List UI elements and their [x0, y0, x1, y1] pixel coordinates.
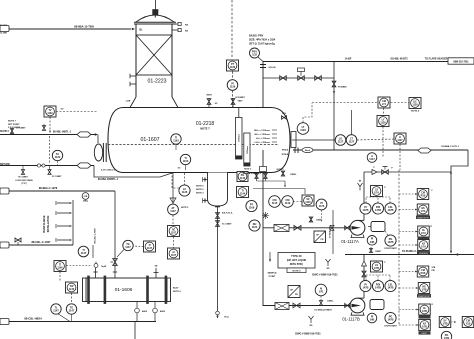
- signal TV lateral: [56, 109, 98, 112]
- svg-text:ICB: ICB: [84, 196, 88, 198]
- instrument A-1147: [367, 153, 377, 163]
- wire return line: [0, 165, 94, 167]
- wire boot drain line: [217, 206, 219, 316]
- signal PT to PI: [232, 72, 234, 80]
- signal to XL-B1: [399, 309, 419, 326]
- check valve discharge B: [362, 261, 367, 277]
- instrument square UF-PD-B: [288, 286, 300, 298]
- off-page connector feed line: [0, 26, 9, 32]
- svg-text:1/7A: 1/7A: [421, 245, 426, 248]
- signal LT up: [303, 103, 312, 123]
- svg-text:147B: 147B: [375, 209, 381, 212]
- signal LG to LI: [357, 139, 394, 140]
- svg-text:START/STOP: START/STOP: [418, 295, 430, 298]
- suction A strainer: [274, 225, 289, 232]
- svg-text:(TYP): (TYP): [22, 183, 27, 185]
- signal LC to vessel: [172, 173, 185, 188]
- svg-text:Y1B: Y1B: [466, 322, 471, 325]
- instrument PI-1136: [227, 80, 238, 91]
- line label 8BA-FW: [243, 172, 262, 175]
- signal to HS-A2: [399, 209, 417, 211]
- valve suction B: [293, 303, 300, 308]
- svg-text:01-2218: 01-2218: [196, 121, 215, 127]
- plug valve symbol: [262, 212, 269, 219]
- svg-text:14B: 14B: [370, 319, 375, 322]
- dcs square XL-A2: [417, 240, 430, 255]
- instrument PG-B: [384, 312, 397, 327]
- wire PSV riser: [262, 62, 264, 108]
- suction B label: [314, 309, 332, 312]
- svg-text:1/7B: 1/7B: [421, 288, 426, 291]
- thermowell on drain: [94, 262, 106, 269]
- svg-text:VENT: VENT: [206, 94, 212, 96]
- valve on exchanger inlet: [111, 259, 118, 266]
- instrument LT-1126: [297, 123, 309, 135]
- svg-text:Vksd: Vksd: [224, 317, 230, 319]
- interlock bubble ICB: [82, 193, 89, 203]
- blind flange header vertical: [72, 200, 74, 245]
- signal trunk vertical: [398, 170, 400, 326]
- instrument PI-A: [360, 203, 371, 214]
- svg-text:STB: STB: [432, 267, 436, 269]
- svg-text:88-8BA-C-1978: 88-8BA-C-1978: [39, 186, 58, 190]
- exchanger flange 1: [87, 276, 90, 304]
- svg-text:SET @ 10.67 kg/cm2g: SET @ 10.67 kg/cm2g: [249, 43, 275, 46]
- svg-text:SC 1/2BET: SC 1/2BET: [222, 224, 232, 226]
- instrument PI-B: [360, 280, 371, 291]
- wire return drop and bottoms line: [94, 166, 175, 182]
- svg-text:SO-8BL-IN-BT2: SO-8BL-IN-BT2: [390, 58, 408, 61]
- wire suction B: [263, 305, 350, 307]
- svg-text:WITH BTIC): WITH BTIC): [290, 263, 303, 266]
- column skirt: [126, 97, 178, 108]
- wire line 88-CBL-C-1607: [0, 240, 73, 245]
- svg-text:P1B: P1B: [421, 272, 426, 275]
- signal Y1 to Y2: [451, 321, 457, 323]
- svg-text:STOP/START: STOP/START: [384, 247, 397, 250]
- valve suction A: [294, 226, 301, 231]
- off-page connector 1607: [0, 242, 9, 248]
- off-page connector return: [0, 164, 10, 166]
- instrument LSL-B: [385, 280, 396, 291]
- reducer suction A: [330, 225, 334, 230]
- wire sample riser: [329, 210, 334, 254]
- svg-text:LOW POINT DRAIN: LOW POINT DRAIN: [15, 179, 33, 182]
- svg-text:PD: PD: [295, 294, 298, 296]
- wire vessel to LG bridle: [292, 139, 335, 141]
- svg-text:SET POINT: SET POINT: [8, 124, 20, 126]
- svg-text:147B: 147B: [363, 287, 369, 290]
- instrument TG-1147: [117, 240, 133, 257]
- svg-text:1144: 1144: [240, 192, 246, 195]
- signal row to LY squares: [312, 102, 378, 104]
- svg-text:1149: 1149: [285, 202, 291, 205]
- svg-text:147B: 147B: [388, 241, 394, 244]
- svg-text:SC 1/2BET: SC 1/2BET: [52, 176, 62, 178]
- svg-text:14-BF: 14-BF: [345, 58, 352, 61]
- svg-text:1103: 1103: [183, 160, 189, 163]
- blind flange stub 1: [57, 202, 72, 204]
- exchanger bottom nozzle 1: [135, 302, 148, 322]
- svg-text:1176: 1176: [319, 205, 325, 208]
- dcs square HS-A2: [416, 204, 430, 219]
- column left side nozzles: [130, 74, 136, 86]
- svg-text:DWG # 88W-019-7031: DWG # 88W-019-7031: [312, 274, 338, 277]
- note PRV basis: [249, 35, 276, 46]
- instrument square CM-LY: [378, 97, 390, 108]
- instrument TI on line 1607: [78, 246, 89, 257]
- instrument square TI-1147: [133, 241, 155, 252]
- svg-text:RT8LB: RT8LB: [282, 154, 289, 156]
- drain line label: [0, 0, 1, 1]
- svg-text:1146: 1146: [57, 266, 63, 269]
- sample probe to AT: [170, 173, 176, 204]
- svg-text:SIZE: 4P6-7024 x 1024: SIZE: 4P6-7024 x 1024: [249, 39, 276, 42]
- svg-text:1145: 1145: [272, 202, 278, 205]
- valve on line 1607: [15, 238, 21, 245]
- instrument LSL-A: [385, 203, 396, 214]
- svg-text:1146: 1146: [69, 288, 75, 291]
- pump 01-1117A: [345, 220, 365, 237]
- svg-text:147B: 147B: [388, 319, 394, 322]
- off-page connector 1978: [0, 188, 9, 194]
- svg-text:START/STOP: START/STOP: [417, 216, 429, 219]
- instrument LT-1127: [346, 110, 357, 145]
- signal PI down: [321, 210, 323, 222]
- drain funnel A: [326, 259, 331, 270]
- signal AI down: [319, 296, 334, 306]
- svg-text:LLL = 700mm: LLL = 700mm: [256, 138, 270, 140]
- column right nozzles: [172, 22, 188, 32]
- svg-text:1/7B: 1/7B: [374, 267, 379, 270]
- instrument PSV pilot: [250, 48, 264, 62]
- svg-text:147B: 147B: [363, 209, 369, 212]
- svg-text:NOTE 3: NOTE 3: [196, 193, 204, 195]
- svg-text:LGB: LGB: [126, 101, 131, 103]
- instrument square AW: [237, 172, 248, 182]
- column top fitting: [153, 10, 158, 18]
- signal AE to AI: [173, 237, 175, 249]
- svg-text:P1B: P1B: [421, 194, 426, 197]
- svg-text:88-CBL-C-1607: 88-CBL-C-1607: [31, 240, 51, 244]
- wire suction A: [263, 227, 350, 229]
- instrument TL-1147: [51, 304, 61, 314]
- dcs square XL-B1: [419, 304, 434, 319]
- exchanger right channel: [167, 278, 171, 302]
- svg-text:01-1117A: 01-1117A: [341, 239, 359, 244]
- wire drop from bottom line: [134, 322, 136, 339]
- main line spec hexagon: [418, 145, 460, 153]
- instrument square LS-117A: [371, 186, 387, 197]
- vessel top right fitting: [282, 113, 287, 119]
- instrument square TV-1132: [44, 106, 56, 117]
- instrument square SC-1145: [302, 195, 314, 206]
- valve discharge A: [382, 167, 389, 175]
- instrument square PT-1136: [227, 60, 239, 71]
- column 01-2223 dome: [136, 15, 174, 22]
- svg-text:TYPE 2C: TYPE 2C: [291, 254, 302, 258]
- svg-text:1145: 1145: [305, 201, 311, 204]
- svg-text:1126: 1126: [412, 103, 418, 106]
- boot drain end arrow: [216, 311, 230, 318]
- svg-text:HC 1/2BET: HC 1/2BET: [18, 177, 29, 179]
- off-page connector H85H: [0, 319, 9, 325]
- vessel label 01-2218: [196, 121, 215, 131]
- check valve discharge A: [372, 170, 377, 175]
- svg-text:NOTE 3: NOTE 3: [244, 169, 251, 171]
- instrument square TI-1144: [237, 187, 249, 198]
- svg-text:PC/MBU: PC/MBU: [338, 87, 347, 89]
- instrument TI-1103 on vessel: [178, 154, 191, 170]
- svg-text:PD: PD: [320, 239, 323, 241]
- wire discharge header A: [364, 171, 451, 173]
- instrument TA-1132: [52, 150, 62, 160]
- instrument DH-1164: [249, 220, 260, 231]
- svg-text:14B: 14B: [370, 241, 375, 244]
- svg-text:0.2% 1500mm: 0.2% 1500mm: [101, 170, 115, 172]
- svg-text:8T8LB: 8T8LB: [282, 150, 289, 152]
- seal pot B: [370, 300, 384, 310]
- svg-text:NOTE 7: NOTE 7: [200, 127, 210, 131]
- valve PC row 1: [280, 76, 287, 80]
- instrument square PDT: [314, 231, 326, 243]
- svg-text:88-8BA-12-TBH: 88-8BA-12-TBH: [74, 25, 94, 29]
- svg-text:1147: 1147: [81, 252, 87, 255]
- svg-text:1/32: 1/32: [252, 54, 257, 57]
- instrument square LI-1127: [394, 133, 406, 144]
- svg-text:88-8BA-FW/BTL-1: 88-8BA-FW/BTL-1: [243, 172, 262, 175]
- valve PC row 3: [315, 76, 322, 80]
- dcs square HS-A1: [417, 189, 433, 200]
- svg-text:ELEV: ELEV: [173, 288, 179, 290]
- instrument TG-1147: [66, 304, 76, 314]
- svg-text:12-TBH: 12-TBH: [0, 33, 8, 35]
- dwg ref A: [312, 274, 338, 277]
- signal TI square to well: [66, 265, 92, 267]
- wire PC riser: [333, 62, 335, 151]
- suction B strainer: [275, 303, 289, 310]
- svg-text:1500mm: 1500mm: [239, 134, 241, 142]
- valve on boot drain: [216, 212, 234, 227]
- svg-text:SC 1/2BET: SC 1/2BET: [16, 128, 26, 130]
- instrument TI-1102 on vessel: [171, 134, 181, 150]
- svg-text:(HP, HOT, LIQUID: (HP, HOT, LIQUID: [287, 259, 307, 262]
- leader TL to line: [58, 314, 72, 322]
- boot level tap 1: [203, 177, 208, 182]
- svg-text:88W-218-7031: 88W-218-7031: [453, 61, 469, 63]
- pump A label: [341, 239, 359, 244]
- svg-text:RETURN: RETURN: [0, 164, 10, 166]
- dcs square XA-B2: [419, 320, 431, 336]
- PSV inlet flanges: [260, 65, 276, 70]
- svg-text:RUNNING: RUNNING: [419, 253, 428, 255]
- wire supply elbow to nozzle: [97, 135, 99, 144]
- svg-text:1102: 1102: [173, 140, 179, 143]
- signal to HS-B2: [399, 287, 418, 289]
- signal TA to return: [57, 161, 59, 166]
- svg-text:SUPPLY: SUPPLY: [0, 131, 9, 133]
- wire line 88-8BA-C-1978: [0, 186, 115, 191]
- valve vent suction: [309, 217, 323, 222]
- wire vertical drop to exchanger: [114, 191, 116, 270]
- svg-text:NOTE 5: NOTE 5: [181, 207, 189, 209]
- svg-text:1/2BSL: 1/2BSL: [327, 301, 334, 303]
- exchanger flange 4: [165, 276, 168, 304]
- svg-text:BA10: BA10: [160, 310, 166, 313]
- svg-text:TO FLARE HEADER: TO FLARE HEADER: [425, 58, 448, 61]
- flare dwg tag: [448, 58, 474, 64]
- dcs square Y2: [462, 317, 474, 328]
- svg-text:1/7B: 1/7B: [422, 325, 427, 328]
- signal to HS-B1: [399, 271, 417, 273]
- vessel level marks MLL NLL LLL LLLL: [254, 130, 277, 144]
- seal pot A: [368, 222, 385, 232]
- off-page connector supply: [0, 131, 9, 133]
- svg-text:1/2BET: 1/2BET: [375, 251, 382, 253]
- boot level tap 2: [203, 198, 208, 203]
- signal seal pot A: [366, 197, 390, 203]
- signal pot to PG: [385, 231, 388, 236]
- svg-text:VBET: VBET: [237, 101, 243, 103]
- blind flange stub 4: [57, 239, 72, 241]
- vessel internal standpipe 2: [244, 133, 250, 166]
- column 01-2223 shell: [136, 24, 172, 97]
- column packing section: [136, 35, 172, 75]
- instrument AT-1107: [168, 204, 190, 215]
- type 2c note box: [278, 253, 315, 273]
- column 01-2223 top flange: [134, 22, 176, 24]
- svg-text:1/2 BSA-207BDH: 1/2 BSA-207BDH: [314, 309, 332, 312]
- svg-text:1127: 1127: [349, 141, 355, 144]
- instrument square LS-117B: [371, 261, 387, 272]
- svg-text:INSTALLATION: INSTALLATION: [47, 215, 50, 232]
- svg-text:1164: 1164: [252, 226, 258, 229]
- svg-text:BA10: BA10: [142, 310, 148, 313]
- pump B discharge: [363, 255, 365, 299]
- svg-text:NOTE 7: NOTE 7: [8, 121, 17, 123]
- exchanger 01-1606 shell: [86, 278, 167, 302]
- instrument PDI-A: [372, 203, 383, 214]
- blind flange stub 2: [57, 212, 72, 214]
- signal TW down: [71, 293, 73, 304]
- spec break hexagon supply: [77, 132, 91, 137]
- blind flange bracket text: [43, 201, 56, 242]
- wire bottom line 88-CBL-H85H: [0, 317, 156, 322]
- pressure tap A: [373, 167, 393, 170]
- svg-text:1147: 1147: [53, 310, 59, 313]
- drain funnel B: [309, 316, 314, 327]
- spec break hexagon return: [77, 163, 91, 168]
- signal AT to AE: [172, 215, 174, 226]
- svg-text:88-8BA-FW/BTL-1: 88-8BA-FW/BTL-1: [98, 178, 119, 181]
- exchanger right note: [173, 288, 181, 294]
- column label 01-2223: [147, 79, 166, 85]
- svg-text:1107: 1107: [170, 210, 176, 213]
- instrument LC-1126: [179, 185, 204, 196]
- svg-text:01-1606: 01-1606: [115, 287, 133, 293]
- vessel vent valve 2: [231, 97, 246, 108]
- svg-text:1132: 1132: [47, 112, 53, 115]
- svg-text:1107: 1107: [171, 231, 177, 234]
- svg-text:01-1607: 01-1607: [140, 137, 159, 143]
- instrument PI-147A small: [367, 236, 382, 254]
- svg-text:1107: 1107: [171, 254, 177, 257]
- vent funnel A: [358, 181, 363, 191]
- svg-text:01-2223: 01-2223: [147, 79, 166, 85]
- dwg ref B: [295, 333, 321, 336]
- vessel internal distributor pipe: [108, 144, 278, 146]
- vessel left manway flanges: [103, 143, 106, 162]
- svg-text:Wood: Wood: [305, 150, 311, 152]
- svg-text:NOTE 4: NOTE 4: [293, 269, 302, 272]
- suction top fittings: [244, 167, 305, 195]
- control valve PC tag: [332, 81, 347, 88]
- signal line to PT: [231, 0, 233, 59]
- svg-text:147B: 147B: [388, 287, 394, 290]
- valve on supply line small: [10, 128, 26, 135]
- svg-text:SC/1/2BET: SC/1/2BET: [235, 97, 245, 99]
- svg-text:(TBL): (TBL): [83, 201, 89, 203]
- instrument square AI-1107: [168, 248, 180, 259]
- svg-text:FAULT: FAULT: [422, 332, 429, 335]
- svg-text:SC6-06: SC6-06: [269, 67, 277, 69]
- svg-text:NOTE 4: NOTE 4: [411, 110, 420, 113]
- signal LY to LIC: [391, 102, 410, 104]
- signal LI down: [399, 144, 401, 170]
- vessel label 01-1607: [140, 137, 159, 143]
- wire PC bypass row: [263, 77, 334, 79]
- vessel left manway cap: [94, 144, 102, 161]
- boot outlet flange: [215, 206, 220, 208]
- svg-text:NLL = 1100mm: NLL = 1100mm: [255, 134, 270, 136]
- exchanger left head: [83, 278, 87, 302]
- svg-text:STOP/START: STOP/START: [384, 325, 397, 328]
- valve PC row 2 with actuator: [298, 68, 305, 80]
- exchanger flange 2: [104, 276, 107, 304]
- main line tag oval: [302, 147, 313, 152]
- wire main line drop right: [450, 150, 468, 254]
- svg-text:147B: 147B: [375, 287, 381, 290]
- dcs square HS-B2: [417, 283, 431, 298]
- instrument PT-1169: [246, 200, 257, 211]
- dcs square XL-A1: [418, 226, 433, 241]
- svg-text:SO: SO: [61, 109, 64, 111]
- pump 01-1117B: [345, 298, 365, 315]
- wire main bottoms line: [293, 149, 468, 151]
- instrument PDI-B: [372, 280, 383, 291]
- svg-text:1132: 1132: [55, 156, 61, 159]
- signal to XL-A1: [399, 231, 418, 246]
- dcs square HS-B1: [417, 266, 436, 277]
- svg-text:88-CBL-C-TBH: 88-CBL-C-TBH: [95, 228, 97, 244]
- column inlet nozzle BL: [139, 29, 143, 32]
- instrument PG-A: [384, 235, 397, 250]
- svg-text:1200mm: 1200mm: [247, 146, 249, 154]
- pump A discharge: [363, 172, 365, 220]
- signal to HS-A1: [399, 193, 417, 195]
- svg-text:1/7A: 1/7A: [374, 191, 379, 194]
- svg-text:1169: 1169: [249, 207, 255, 210]
- svg-text:SC6: SC6: [282, 113, 286, 115]
- wire flare header: [263, 58, 448, 62]
- svg-text:1126: 1126: [380, 121, 386, 124]
- instrument CM-1149: [282, 196, 294, 208]
- instrument PI-147B small: [367, 313, 377, 323]
- wire steam supply line: [0, 131, 98, 136]
- svg-text:1/7B: 1/7B: [442, 322, 447, 325]
- svg-text:SAMPLE: SAMPLE: [267, 272, 277, 275]
- column top vent line: [155, 0, 157, 10]
